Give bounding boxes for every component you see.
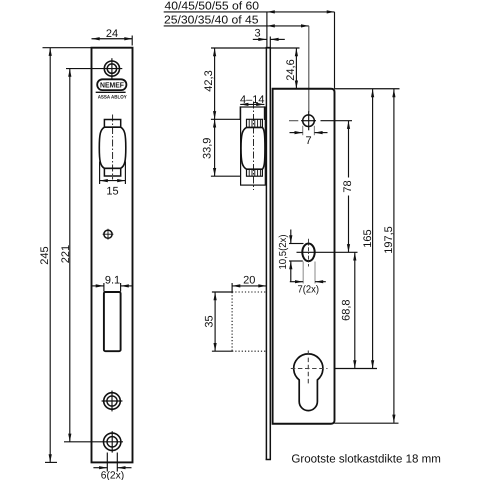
extension line latch top [211,118,241,120]
extension line case bottom right [335,422,399,424]
dimension 78 [348,121,350,253]
svg-text:35: 35 [204,315,216,327]
lock case outline [273,89,335,424]
extension line cylinder center [335,368,378,370]
dimension 165 [372,89,374,369]
svg-text:68,8: 68,8 [341,299,353,320]
dimension 42,3 [214,48,216,119]
faceplate front view outline [92,48,133,463]
dimension 24,6 [295,48,297,89]
dimension 10,5(2x) [289,230,304,283]
dimension 245 [43,48,92,463]
latch side view: channel [241,107,266,185]
extension line hub center up to note line 2 [308,26,310,112]
dimension 33,9 [214,119,216,176]
cylinder crosshair [291,368,328,370]
dimension 6(2x) [93,453,131,472]
svg-text:197,5: 197,5 [383,226,395,254]
slot hole (2x) [302,244,314,262]
svg-text:3: 3 [254,27,260,39]
svg-text:165: 165 [362,229,374,247]
svg-text:42,3: 42,3 [203,70,215,91]
dimension 68,8 [354,252,356,368]
small center hole [103,229,114,240]
svg-text:NEMEF: NEMEF [100,81,124,90]
top screw hole [104,58,119,79]
svg-text:Grootste slotkastdikte 18 mm: Grootste slotkastdikte 18 mm [291,453,441,466]
slot hole horizontal centerline / ext to 78 & 68,8 [297,251,358,253]
svg-text:78: 78 [342,180,354,192]
svg-text:7(2x): 7(2x) [298,285,320,296]
NEMEF logo [96,79,128,100]
hub hole horizontal centerline / extension to 78 [289,120,298,122]
dimension 7(2x) [290,262,326,284]
svg-text:24,6: 24,6 [285,59,297,80]
extension line case top right [335,88,400,90]
dimension 35 [214,292,216,351]
dimension 221 [64,69,123,442]
dimension 7 (hub) [290,126,328,135]
hub hole [303,115,315,127]
latch centerline [112,115,114,180]
svg-text:33,9: 33,9 [201,138,213,159]
euro cylinder hole [294,354,323,411]
extension line faceplate front up to note lines [266,12,268,48]
svg-text:10,5(2x): 10,5(2x) [278,235,289,270]
svg-text:15: 15 [106,185,118,197]
latch side view: top hatched block [247,119,263,127]
latch side view: barrel [241,127,265,169]
svg-text:25/30/35/40 of 45: 25/30/35/40 of 45 [164,15,259,27]
bottom screw hole [104,431,121,452]
faceplate side view (strip) [266,47,271,459]
middle screw hole [102,391,123,412]
svg-text:ASSA ABLOY: ASSA ABLOY [98,95,128,101]
deadbolt cutout [104,292,121,351]
latch side view centerline [253,102,255,191]
dimension 197,5 [393,89,395,423]
svg-text:245: 245 [39,246,51,264]
svg-text:7: 7 [305,135,311,147]
extended deadbolt (dotted) [232,292,266,351]
latch bolt front view: barrel [99,127,126,168]
svg-text:20: 20 [243,274,255,286]
latch bolt front view: top guide block [104,120,120,128]
svg-text:221: 221 [60,245,72,263]
extension line latch bottom [211,175,241,177]
svg-text:6(2x): 6(2x) [101,470,125,480]
svg-text:40/45/50/55 of 60: 40/45/50/55 of 60 [165,1,260,13]
latch bolt front view: bottom guide block [104,168,120,176]
dimension 15 [100,162,126,185]
latch side view: bottom hatched block [247,169,263,176]
extension line case rear up to note line 1 [334,12,336,89]
extension line plate top (left) [211,47,300,49]
svg-text:9.1: 9.1 [105,274,120,286]
